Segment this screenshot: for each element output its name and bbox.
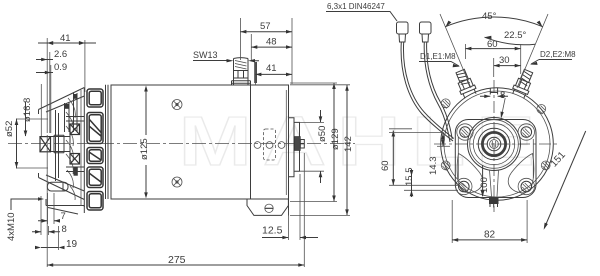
dim 2.6 <box>36 49 67 133</box>
svg-text:19: 19 <box>66 239 78 250</box>
shaft <box>51 124 71 164</box>
terminal stud left end view <box>453 68 478 99</box>
spade connector right <box>420 22 432 42</box>
ext line key <box>40 84 42 136</box>
svg-text:8: 8 <box>500 90 505 101</box>
end view horizontal centerline <box>434 143 560 145</box>
flange step <box>289 118 300 177</box>
dim 14.3 <box>428 133 450 175</box>
top M10 stud <box>65 93 78 132</box>
flange plate outline <box>455 120 536 198</box>
svg-text:57: 57 <box>260 21 271 32</box>
svg-text:60: 60 <box>487 39 498 50</box>
svg-text:100: 100 <box>479 177 490 193</box>
dim 275 <box>47 135 304 267</box>
bolt hole BR <box>521 181 532 192</box>
body screw bottom <box>172 177 182 187</box>
svg-text:30: 30 <box>499 55 510 66</box>
dim 41 stud <box>255 62 292 85</box>
svg-text:ø50: ø50 <box>317 126 328 142</box>
svg-text:41: 41 <box>266 63 277 74</box>
end view vertical centerline <box>493 80 495 212</box>
label D2E2 <box>530 50 576 65</box>
svg-text:48: 48 <box>266 37 277 48</box>
svg-text:7: 7 <box>61 211 66 222</box>
bottom M10 stud pill <box>47 182 68 191</box>
dim 60 left <box>380 129 460 191</box>
bearing top <box>70 124 80 135</box>
svg-text:4xM10: 4xM10 <box>6 212 17 241</box>
bolt hole TL <box>460 127 471 138</box>
motor body <box>111 85 250 199</box>
vent slots <box>87 89 103 210</box>
dim o16.8 <box>22 98 33 137</box>
flange face <box>288 85 290 216</box>
svg-text:6,3x1 DIN46247: 6,3x1 DIN46247 <box>327 2 385 11</box>
svg-text:SW13: SW13 <box>193 50 218 60</box>
terminal stud right end view <box>511 68 536 99</box>
cap bottom protrusion <box>247 199 288 215</box>
dim o50 <box>300 110 329 183</box>
section bar <box>254 62 257 83</box>
svg-text:41: 41 <box>60 33 71 44</box>
dim 60 top <box>465 39 520 77</box>
svg-text:45°: 45° <box>482 11 497 22</box>
bearing bottom <box>70 154 80 165</box>
svg-text:8: 8 <box>62 224 67 235</box>
svg-text:ø16.8: ø16.8 <box>22 98 33 122</box>
dim o129 <box>290 83 341 202</box>
bracket left face <box>39 110 59 182</box>
svg-text:D1,E1:M8: D1,E1:M8 <box>420 52 456 61</box>
label D1E1 <box>419 52 460 67</box>
body screw top <box>172 100 182 110</box>
kidney cutout right <box>508 154 534 193</box>
wires <box>401 42 454 141</box>
brush holder dark <box>74 167 78 176</box>
flange hub boss <box>468 118 521 171</box>
dim 30 top <box>494 55 521 67</box>
hub pointer arrow <box>502 98 506 116</box>
bolt hole BL <box>459 181 470 192</box>
dim 8 <box>32 196 67 235</box>
label 100 <box>479 165 490 197</box>
dim 41 top-left <box>38 33 96 133</box>
outer circle body <box>441 88 554 201</box>
dim 48 <box>251 34 292 60</box>
bottom rib <box>490 170 499 197</box>
bracket bottom foot <box>46 199 84 214</box>
svg-text:ø125: ø125 <box>139 138 150 160</box>
22.5 arc <box>485 30 536 45</box>
svg-text:142: 142 <box>343 136 354 152</box>
dim o125 <box>139 86 150 199</box>
svg-text:82: 82 <box>484 230 496 241</box>
dim o52 <box>4 119 48 169</box>
cap clamp screw <box>265 204 273 212</box>
svg-text:22.5°: 22.5° <box>504 30 526 41</box>
dim 0.9 <box>36 62 67 133</box>
label SW13 <box>193 50 259 62</box>
drive end bracket cone <box>39 88 85 200</box>
commutator end cap <box>250 85 288 199</box>
terminal stud side view <box>232 58 251 85</box>
tie bolt bosses <box>441 99 550 171</box>
svg-text:14.3: 14.3 <box>428 157 439 176</box>
svg-text:ø129: ø129 <box>330 128 341 150</box>
svg-text:D2,E2:M8: D2,E2:M8 <box>540 50 576 59</box>
hole bosses <box>456 124 535 195</box>
svg-text:12.5: 12.5 <box>262 225 283 237</box>
dim 142 <box>290 85 354 216</box>
cap dashed window <box>264 129 276 160</box>
dim 15.5 <box>404 168 415 198</box>
45 deg lines <box>440 14 548 88</box>
label DIN <box>326 2 397 21</box>
shaft key box <box>40 137 51 152</box>
shaft end bottom <box>489 197 499 204</box>
inner joint circle <box>444 91 550 197</box>
fan blades <box>66 98 75 200</box>
bearing housing steps <box>66 117 84 172</box>
svg-text:275: 275 <box>168 254 186 266</box>
centerline side view <box>8 143 355 145</box>
45 arc <box>445 11 542 27</box>
bracket verticals <box>84 85 108 207</box>
svg-text:ø52: ø52 <box>4 121 15 137</box>
dim 82 <box>452 200 527 243</box>
kidney cutout left <box>457 154 483 193</box>
dim 7 <box>38 193 66 224</box>
key slot top <box>490 88 497 95</box>
svg-text:2.6: 2.6 <box>54 49 67 60</box>
dim 19 <box>35 226 78 250</box>
dim 8 keyslot <box>480 90 508 101</box>
dim 12.5 <box>262 174 318 240</box>
dim 57 <box>240 18 292 84</box>
svg-text:0.9: 0.9 <box>54 62 67 73</box>
svg-text:15.5: 15.5 <box>404 168 415 187</box>
dim 151 <box>544 131 586 230</box>
label 4xM10 <box>6 197 44 241</box>
cap vent circles <box>254 142 285 149</box>
hub circles <box>470 120 519 169</box>
shaft stub <box>294 137 304 151</box>
bolt hole TR <box>521 127 532 138</box>
svg-text:60: 60 <box>380 160 391 171</box>
spade connector left <box>397 22 409 42</box>
